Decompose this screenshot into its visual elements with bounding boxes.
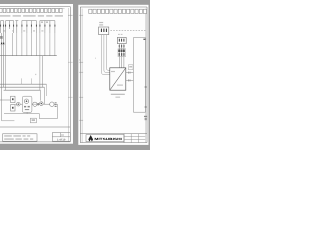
svg-text:1-4F19: 1-4F19 [57, 138, 66, 141]
svg-text:MITSUBISHI: MITSUBISHI [94, 137, 122, 141]
